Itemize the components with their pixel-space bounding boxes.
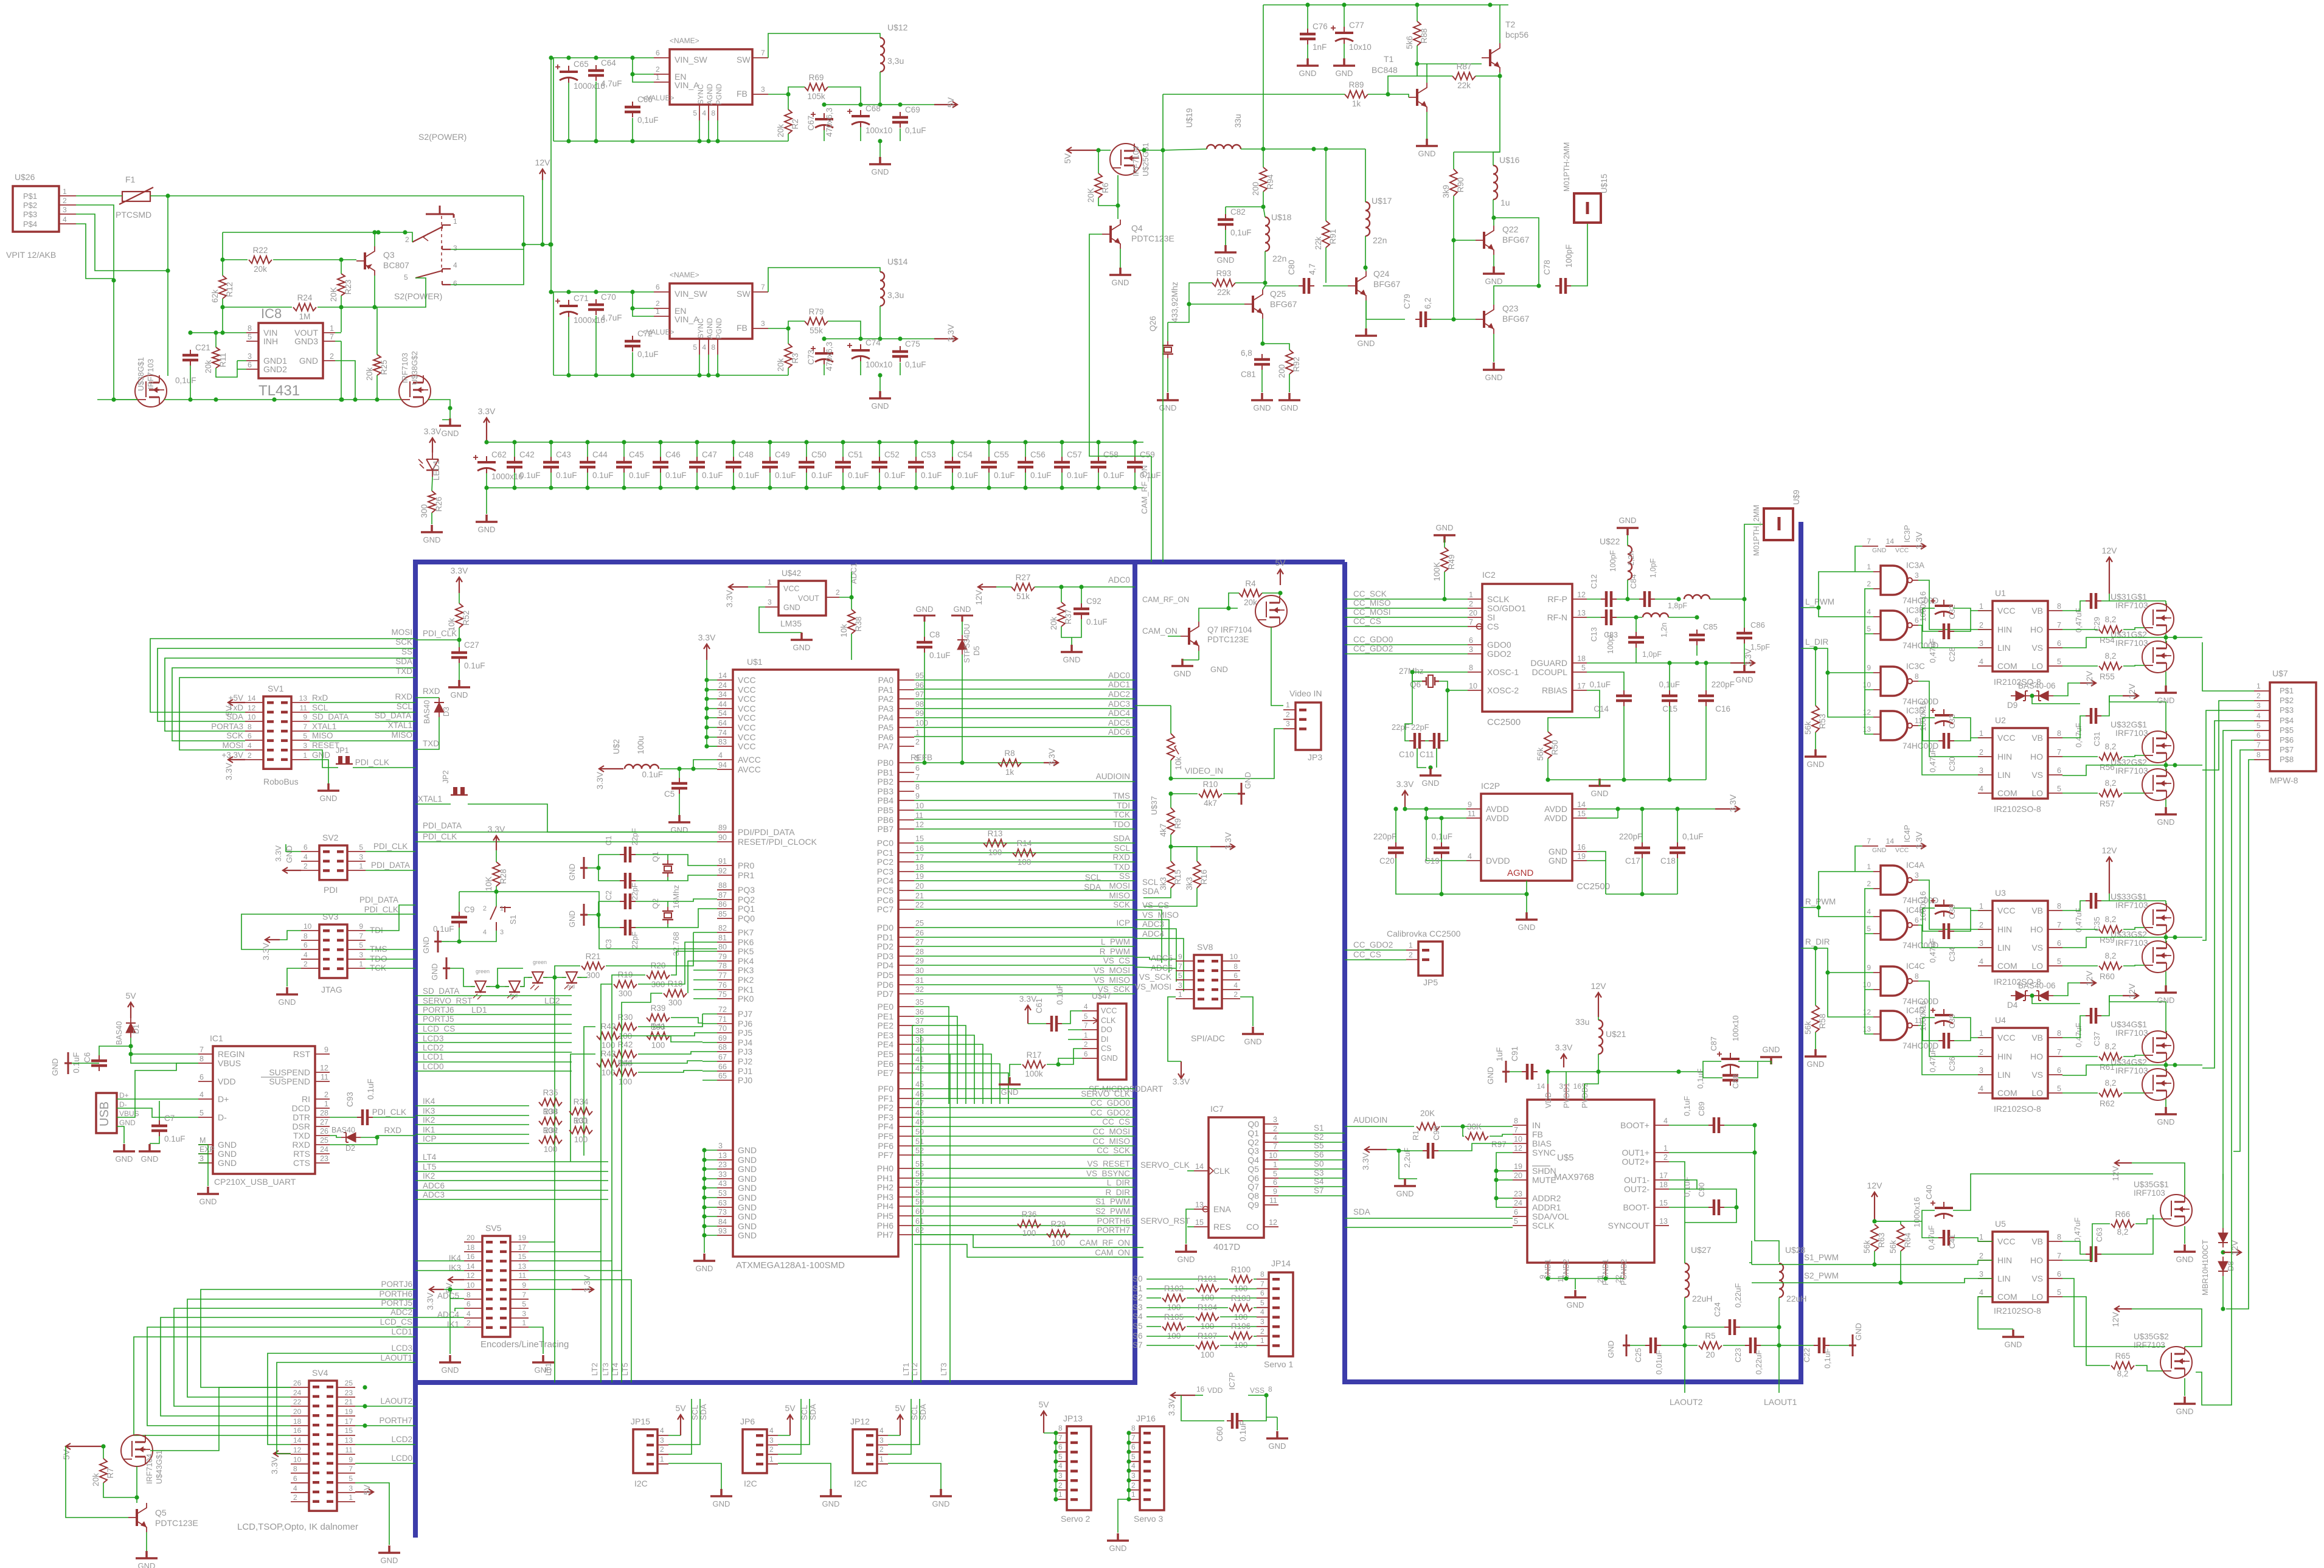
wire S4 [1278, 1186, 1345, 1187]
wire P$7 [2233, 750, 2254, 1151]
wire [1815, 732, 1816, 749]
svg-text:1,2n: 1,2n [1660, 623, 1668, 637]
svg-text:PJ3: PJ3 [738, 1047, 752, 1056]
capacitor [357, 1117, 373, 1118]
svg-text:48: 48 [915, 1109, 924, 1117]
svg-text:R87: R87 [1457, 62, 1472, 71]
wire [1494, 286, 1539, 305]
svg-text:VDD: VDD [1544, 1092, 1553, 1108]
wire [376, 307, 378, 355]
svg-text:JTAG: JTAG [321, 985, 342, 994]
resistor R91 [1322, 221, 1330, 248]
svg-text:C85: C85 [1703, 622, 1718, 631]
svg-text:56: 56 [915, 1170, 924, 1178]
svg-text:88: 88 [718, 881, 727, 890]
wire [1248, 1395, 1277, 1417]
supply 12V arrow [2106, 857, 2112, 893]
svg-text:1: 1 [656, 73, 660, 82]
svg-text:GND: GND [312, 751, 330, 760]
svg-text:6: 6 [1131, 1443, 1136, 1451]
inductor U$14 [880, 272, 884, 306]
wire PF0 [914, 1088, 1135, 1089]
wire GND [335, 361, 355, 400]
svg-text:CC_MOSI: CC_MOSI [1092, 1127, 1130, 1136]
svg-text:ADC2: ADC2 [1108, 690, 1130, 699]
svg-text:1: 1 [500, 905, 504, 912]
svg-text:SERVO_RST: SERVO_RST [1140, 1216, 1190, 1226]
svg-text:22n: 22n [1272, 254, 1286, 263]
wire PDI_DATA [415, 831, 717, 833]
svg-text:8,2: 8,2 [2105, 651, 2117, 661]
svg-text:12V: 12V [974, 589, 983, 605]
svg-text:0,01uF: 0,01uF [1654, 1350, 1663, 1375]
svg-text:6: 6 [1084, 1051, 1087, 1058]
svg-text:SCL: SCL [1114, 844, 1131, 853]
resistor R33 [539, 1117, 562, 1125]
svg-text:ADC3: ADC3 [423, 1190, 445, 1199]
supply 3.3V arrow [1901, 543, 1926, 549]
svg-text:10: 10 [467, 1281, 475, 1289]
wire [1865, 690, 1873, 734]
svg-text:0,47uF: 0,47uF [2074, 608, 2083, 633]
svg-text:5V: 5V [785, 1403, 796, 1413]
svg-text:1: 1 [1058, 1490, 1063, 1499]
resistor R10 [1199, 790, 1222, 797]
supply 3.3V arrow [429, 438, 435, 453]
wire [449, 1289, 451, 1354]
svg-text:PDI_DATA: PDI_DATA [423, 821, 462, 830]
svg-text:BOOT+: BOOT+ [1620, 1120, 1649, 1130]
wire LT net [529, 1261, 612, 1382]
wire R out [828, 87, 861, 105]
wire IK1 [415, 1134, 529, 1135]
wire [65, 1446, 66, 1447]
svg-text:10K: 10K [484, 876, 493, 891]
svg-text:M01PTH-2MM: M01PTH-2MM [1563, 142, 1571, 192]
capacitor [1623, 690, 1625, 706]
resistor R35 [539, 1098, 562, 1106]
IC U4 IR2102SO-8 [1993, 1028, 2048, 1098]
wire DTR [330, 1117, 357, 1118]
svg-text:SCL: SCL [397, 702, 413, 711]
svg-text:23: 23 [345, 1389, 353, 1397]
svg-text:Q24: Q24 [1373, 269, 1390, 279]
svg-text:TDI: TDI [1117, 801, 1130, 810]
svg-text:DCOUPL: DCOUPL [1532, 667, 1568, 677]
svg-text:GND: GND [738, 1164, 757, 1174]
wire RoboBus net [165, 658, 415, 731]
wire cam power [1271, 627, 1283, 706]
wire ADDR2 [1496, 1180, 1513, 1198]
svg-text:C66: C66 [637, 95, 653, 104]
wire gnd right [1587, 852, 1606, 894]
svg-text:TXD: TXD [423, 739, 439, 748]
wire IK4 [415, 1260, 464, 1261]
wire [1344, 5, 1345, 27]
wire [1170, 706, 1171, 734]
svg-text:100pF: 100pF [1609, 550, 1617, 572]
wire VCC [1954, 1238, 1993, 1241]
NAND gate IC3D [1881, 711, 1907, 740]
svg-text:AVCC: AVCC [738, 765, 761, 774]
svg-text:LT2: LT2 [910, 1363, 919, 1376]
wire ADC2 [161, 1317, 415, 1416]
svg-text:Q1: Q1 [651, 852, 660, 862]
capacitor C57 [1061, 457, 1063, 473]
svg-text:100: 100 [1018, 858, 1032, 867]
svg-text:HO: HO [2030, 1255, 2043, 1265]
svg-text:3: 3 [1979, 639, 1983, 648]
svg-text:85: 85 [718, 910, 727, 918]
wire GND [888, 1463, 941, 1489]
svg-text:21: 21 [915, 892, 924, 900]
svg-text:S2_PWM: S2_PWM [1095, 1207, 1130, 1216]
resistor R42 [614, 1050, 637, 1058]
MOSFET [1255, 595, 1287, 627]
svg-text:0,1uF: 0,1uF [637, 350, 659, 359]
resistor R107 [1196, 1342, 1219, 1349]
wire [287, 968, 301, 987]
IC [1098, 1004, 1126, 1080]
svg-text:S7: S7 [1133, 1341, 1143, 1350]
resistor [1465, 1133, 1488, 1140]
svg-text:22: 22 [915, 901, 924, 909]
ground [197, 1187, 219, 1194]
svg-text:GND: GND [442, 1365, 459, 1375]
svg-text:19: 19 [1514, 1162, 1522, 1171]
svg-text:7: 7 [1131, 1434, 1136, 1442]
wire [85, 1063, 99, 1064]
wire [159, 1101, 160, 1108]
svg-text:IC8: IC8 [261, 306, 282, 321]
svg-text:R55: R55 [2100, 672, 2115, 681]
svg-text:5V: 5V [946, 97, 956, 108]
wire contact B out [451, 249, 524, 285]
wire [598, 901, 620, 902]
wire [704, 1207, 717, 1208]
svg-text:13: 13 [1659, 1217, 1668, 1226]
svg-text:R106: R106 [1231, 1322, 1250, 1331]
svg-text:RoboBus: RoboBus [263, 777, 299, 786]
svg-text:SDA: SDA [395, 657, 412, 666]
svg-text:18: 18 [293, 1417, 302, 1426]
wire VB feed [1953, 1174, 2153, 1210]
wire IK2 [415, 1124, 529, 1125]
svg-text:C52: C52 [884, 450, 900, 459]
capacitor C7 [159, 1120, 160, 1136]
svg-text:10: 10 [293, 1455, 302, 1464]
svg-text:BFG67: BFG67 [1373, 279, 1401, 289]
wire S7 [1278, 1195, 1345, 1196]
svg-text:16Mhz: 16Mhz [671, 885, 681, 909]
svg-text:1,8pF: 1,8pF [1668, 602, 1687, 610]
svg-text:1k: 1k [1352, 99, 1361, 108]
svg-text:2: 2 [1131, 1481, 1136, 1490]
capacitor [620, 901, 636, 902]
resistor R8 [998, 759, 1021, 766]
svg-text:LAOUT1: LAOUT1 [380, 1353, 412, 1362]
capacitor C70 [595, 299, 597, 315]
svg-text:LCD1: LCD1 [391, 1327, 412, 1336]
svg-text:0,1uF: 0,1uF [637, 116, 659, 125]
svg-text:2: 2 [483, 905, 487, 912]
svg-text:R60: R60 [2100, 972, 2115, 981]
wire R41 [671, 1036, 702, 1042]
supply 3.3V arrow [1210, 844, 1235, 850]
wire VIN rail [551, 57, 654, 58]
svg-text:R57: R57 [2100, 799, 2115, 808]
svg-text:VS: VS [2031, 1274, 2043, 1283]
wire S2 [1278, 1142, 1345, 1143]
svg-text:5: 5 [1178, 971, 1182, 980]
wire [1167, 358, 1168, 392]
svg-text:8,2: 8,2 [2117, 1369, 2129, 1378]
svg-text:9: 9 [915, 792, 920, 800]
wire TDI [366, 905, 415, 931]
svg-text:HIN: HIN [1997, 924, 2012, 934]
svg-text:VCC: VCC [1895, 547, 1909, 554]
svg-text:3k3: 3k3 [1159, 877, 1168, 890]
transistor [1489, 49, 1491, 66]
svg-text:4: 4 [467, 1310, 471, 1318]
svg-text:CC_SCK: CC_SCK [1353, 589, 1387, 598]
ground [1483, 266, 1505, 274]
svg-text:5: 5 [404, 273, 408, 282]
resistor R55 [2099, 662, 2122, 670]
svg-text:16: 16 [1196, 1385, 1205, 1393]
ground [1849, 1334, 1856, 1356]
wire [1220, 1288, 1257, 1289]
svg-text:U5: U5 [1995, 1219, 2006, 1229]
supply 3.3V arrow [1044, 760, 1058, 766]
wire PDI_DATA [366, 870, 415, 871]
svg-text:R10: R10 [1203, 780, 1218, 789]
wire SCL [668, 1399, 700, 1445]
svg-text:1,0pF: 1,0pF [1642, 650, 1662, 659]
svg-text:300: 300 [619, 989, 633, 998]
svg-text:2: 2 [1979, 621, 1983, 630]
svg-text:SD_DATA: SD_DATA [375, 711, 411, 720]
svg-text:IC1: IC1 [210, 1033, 223, 1043]
svg-text:FB: FB [737, 89, 747, 99]
wire [707, 737, 717, 738]
svg-text:GND: GND [738, 1145, 757, 1155]
svg-text:20k: 20k [1244, 598, 1257, 607]
svg-text:LIN: LIN [1997, 643, 2011, 653]
svg-text:DGUARD: DGUARD [1530, 658, 1567, 668]
svg-text:R93: R93 [1216, 269, 1232, 278]
svg-text:3,3u: 3,3u [887, 56, 904, 66]
svg-text:C27: C27 [464, 640, 479, 650]
wire ADC6 [1135, 967, 1176, 968]
svg-text:C45: C45 [629, 450, 644, 459]
svg-text:PJ1: PJ1 [738, 1066, 752, 1076]
svg-text:0,1uF: 0,1uF [1682, 832, 1704, 841]
svg-text:12: 12 [1863, 708, 1871, 716]
svg-text:PE2: PE2 [878, 1021, 894, 1030]
resistor R62 [2099, 1089, 2122, 1097]
svg-text:Encoders/LineTracing: Encoders/LineTracing [480, 1339, 569, 1350]
svg-text:C55: C55 [994, 450, 1009, 459]
svg-text:25: 25 [345, 1379, 353, 1387]
svg-text:R94: R94 [1266, 174, 1275, 189]
svg-text:VS_BSYNC: VS_BSYNC [1086, 1169, 1130, 1178]
svg-text:R92: R92 [1292, 357, 1301, 372]
svg-text:78: 78 [718, 962, 727, 970]
wire HIN hi [1978, 629, 1993, 630]
svg-text:MOSI: MOSI [222, 741, 243, 750]
svg-text:PQ2: PQ2 [738, 895, 755, 904]
connector JP12 I2C [853, 1429, 877, 1473]
svg-text:GND: GND [568, 864, 577, 881]
connector JP3 Video IN [1296, 702, 1321, 750]
wire ADC1 [914, 689, 1135, 690]
svg-text:VCC: VCC [1997, 906, 2016, 915]
svg-text:R22: R22 [253, 246, 268, 255]
ground [1333, 58, 1355, 66]
svg-text:bcp56: bcp56 [1505, 30, 1528, 40]
svg-text:1: 1 [1979, 1029, 1983, 1038]
svg-text:12V: 12V [1867, 1181, 1883, 1190]
resistor R54 [2099, 626, 2122, 633]
svg-text:0.1uF: 0.1uF [1055, 983, 1064, 1005]
svg-text:C17: C17 [1625, 856, 1640, 866]
svg-text:PDTC123E: PDTC123E [155, 1518, 198, 1528]
supply 12V arrow [2080, 680, 2096, 686]
svg-text:I2C: I2C [854, 1479, 867, 1488]
wire LIN hi [1978, 647, 1993, 648]
wire VB hi [2062, 901, 2086, 911]
svg-text:3.3V: 3.3V [724, 589, 734, 607]
wire [1444, 539, 1445, 547]
wire gate drive [2062, 793, 2098, 794]
capacitor [1415, 319, 1431, 320]
capacitor [1943, 600, 1944, 617]
svg-text:12V: 12V [2102, 845, 2118, 855]
svg-text:4,7uF: 4,7uF [601, 79, 622, 88]
wire MOSFET to RF [1139, 94, 1163, 150]
svg-text:U$7: U$7 [2272, 668, 2288, 678]
svg-text:16: 16 [293, 1426, 302, 1435]
svg-text:PE0: PE0 [878, 1002, 894, 1011]
svg-text:LCD1: LCD1 [423, 1052, 444, 1061]
svg-text:3.3V: 3.3V [1361, 1152, 1370, 1170]
wire CC_CS [1345, 959, 1406, 960]
svg-text:IRF7104: IRF7104 [1131, 146, 1140, 176]
wire TMS [366, 949, 415, 950]
resistor R69 [805, 83, 828, 91]
svg-text:8: 8 [1514, 1117, 1518, 1125]
svg-text:39: 39 [915, 1036, 924, 1044]
svg-text:7: 7 [2057, 748, 2061, 757]
wire L_DIR [1801, 648, 1873, 673]
svg-text:13: 13 [1577, 609, 1586, 617]
svg-text:PB3: PB3 [878, 786, 894, 796]
svg-text:7: 7 [199, 1046, 204, 1054]
svg-text:VS_SCK: VS_SCK [1139, 973, 1171, 982]
wire [159, 1108, 160, 1120]
svg-text:C53: C53 [921, 450, 936, 459]
svg-text:PDI_CLK: PDI_CLK [355, 758, 389, 767]
wire VS_MISO [914, 984, 1135, 985]
svg-text:PDI/PDI_DATA: PDI/PDI_DATA [738, 827, 795, 837]
svg-text:4: 4 [63, 215, 67, 224]
wire [1220, 1345, 1257, 1346]
svg-text:PB6: PB6 [878, 815, 894, 825]
supply 12V arrow [2123, 693, 2138, 699]
supply 5V arrow [355, 1489, 373, 1495]
svg-text:IR2102SO-8: IR2102SO-8 [1994, 804, 2041, 814]
wire P$4 [76, 224, 114, 279]
svg-text:CC_GDO2: CC_GDO2 [1353, 644, 1393, 653]
svg-text:TCK: TCK [1114, 810, 1130, 819]
svg-text:28: 28 [320, 1109, 328, 1117]
wire [1254, 1336, 1257, 1337]
svg-text:3.3V: 3.3V [424, 426, 442, 436]
svg-text:4: 4 [1273, 1134, 1277, 1142]
svg-text:JP3: JP3 [1308, 752, 1322, 762]
svg-text:6: 6 [199, 1073, 204, 1081]
svg-text:0.1uF: 0.1uF [642, 770, 663, 779]
svg-text:R104: R104 [1198, 1303, 1218, 1312]
svg-text:BFG67: BFG67 [1502, 314, 1530, 324]
svg-text:8: 8 [1915, 972, 1919, 980]
svg-text:3: 3 [1058, 1471, 1063, 1480]
svg-text:2: 2 [1058, 1481, 1063, 1490]
svg-text:R32: R32 [543, 1126, 558, 1135]
svg-text:4: 4 [2256, 712, 2261, 720]
svg-text:5: 5 [359, 941, 363, 949]
capacitor C8 [924, 637, 925, 653]
svg-text:FB: FB [1532, 1129, 1543, 1139]
svg-text:C31: C31 [2092, 732, 2101, 746]
svg-text:2: 2 [1663, 1153, 1668, 1162]
supply 3.3V arrow [1178, 1061, 1184, 1078]
svg-text:Q2: Q2 [651, 898, 660, 909]
wire [1263, 286, 1265, 290]
wire [215, 333, 217, 347]
svg-text:VS: VS [2031, 943, 2043, 952]
wire [1388, 76, 1417, 94]
resistor R59 [2099, 926, 2122, 933]
wire CC_GDO0 [914, 1107, 1135, 1108]
resistor R31 [569, 1126, 592, 1134]
svg-text:4: 4 [304, 853, 308, 861]
svg-text:3: 3 [1979, 1270, 1983, 1278]
svg-text:GND: GND [299, 356, 318, 366]
svg-text:VS: VS [2031, 1070, 2043, 1080]
resistor R4 [1239, 589, 1262, 597]
svg-text:GND: GND [2157, 817, 2175, 827]
svg-text:IRF7103: IRF7103 [2115, 1066, 2148, 1075]
svg-text:8,2: 8,2 [2105, 951, 2117, 960]
wire [717, 355, 718, 375]
svg-text:0,47uF: 0,47uF [1928, 938, 1937, 963]
wire VCC bus [707, 660, 717, 746]
svg-text:R101: R101 [1198, 1274, 1217, 1283]
wire [1061, 473, 1063, 488]
svg-text:IRF7103: IRF7103 [2115, 1028, 2148, 1038]
resistor R64 [1897, 1224, 1904, 1251]
svg-text:470x6,3: 470x6,3 [825, 108, 834, 137]
wire gate drive [2062, 756, 2098, 757]
wire BIAS [1438, 1143, 1513, 1151]
svg-text:22: 22 [293, 1398, 302, 1406]
svg-text:66: 66 [718, 1063, 727, 1071]
svg-text:42: 42 [915, 1064, 924, 1073]
svg-text:DCD: DCD [292, 1103, 310, 1113]
wire L_DIR [914, 1187, 1135, 1188]
